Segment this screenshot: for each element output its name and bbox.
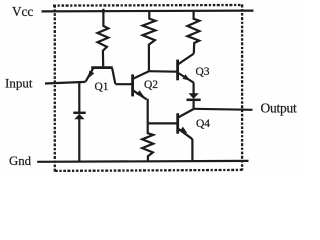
svg-text:Input: Input [5, 75, 33, 90]
wire Q1 collector to Q2 base [115, 83, 131, 85]
arrow Q2 emitter [136, 90, 144, 96]
diode D1 triangle (anode, pointing up) [74, 114, 84, 120]
wire Gnd rail [37, 160, 248, 163]
dashed IC boundary bottom edge [55, 170, 242, 171]
arrow Q1 emitter [88, 71, 95, 79]
diode D2 cathode bar [187, 99, 201, 102]
arrow Q4 emitter [180, 127, 188, 134]
wire Vcc rail [42, 10, 254, 13]
dashed IC boundary top edge [53, 4, 243, 7]
diode D1 cathode bar [73, 112, 85, 115]
svg-text:Q4: Q4 [196, 118, 210, 130]
diode D2 triangle (pointing down) [189, 93, 199, 99]
svg-text:Gnd: Gnd [9, 154, 32, 168]
svg-text:Q3: Q3 [196, 66, 210, 78]
wire Q2 emitter node to Q4 base [148, 122, 177, 124]
transistor Q4 base bar [176, 113, 179, 134]
resistor R2 (Vcc to Q2 collector node) [143, 11, 156, 71]
wire Q3 emitter to diode D2 [193, 82, 195, 93]
transistor Q2 base bar [131, 74, 134, 96]
transistor Q3 collector diagonal [178, 54, 194, 65]
svg-text:Vcc: Vcc [12, 4, 33, 19]
transistor Q4 collector diagonal to output node [178, 109, 193, 117]
resistor R4 (Vcc to Q3 collector) [187, 11, 199, 54]
wire D1 anode to Gnd rail [78, 119, 80, 162]
wire Q2 emitter down to R3/Q4-base node [147, 99, 149, 123]
svg-text:Q2: Q2 [144, 79, 158, 91]
wire Output lead [194, 109, 253, 110]
transistor Q4 emitter diagonal [178, 129, 192, 161]
diode D1 input clamp: wire Input node down [78, 82, 80, 112]
svg-text:Output: Output [261, 100, 297, 115]
transistor Q3 emitter diagonal [178, 73, 193, 83]
wire R1 top overshoot tick [102, 9, 104, 15]
transistor Q2 emitter diagonal [133, 91, 146, 100]
transistor Q1 base bar [91, 66, 113, 69]
wire Q2 collector to Q3 base [149, 70, 177, 73]
wire D2 to output node [193, 99, 195, 109]
wire Input lead [45, 82, 86, 84]
transistor Q3 base bar [176, 60, 179, 81]
transistor Q2 collector diagonal [133, 71, 149, 78]
svg-text:Q1: Q1 [95, 81, 109, 93]
resistor R3 (Q2 emitter node to Gnd) [142, 123, 153, 161]
arrow Q3 emitter [183, 74, 191, 80]
dashed IC boundary left edge [54, 5, 56, 172]
transistor Q1 collector (to Q2 base) [112, 68, 115, 84]
resistor R1 (Vcc to Q1 base) [98, 11, 109, 66]
dashed IC boundary right edge [241, 5, 243, 171]
transistor Q1 emitter (to Input) [86, 68, 94, 81]
